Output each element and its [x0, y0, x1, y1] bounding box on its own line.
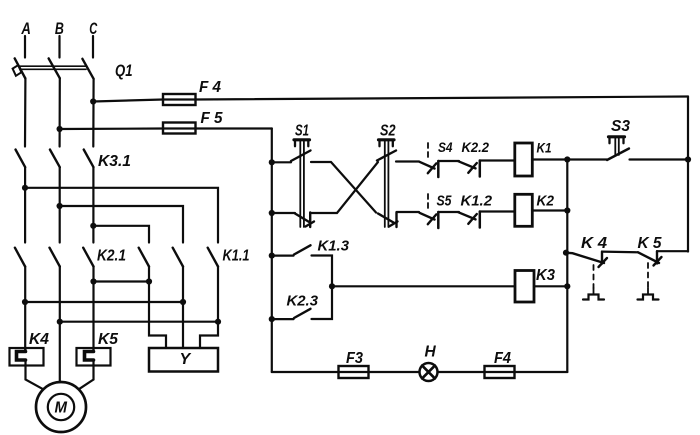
wire to K3 coil	[332, 285, 515, 287]
wire phase C middle	[92, 167, 94, 242]
wire phase B middle	[59, 167, 61, 242]
wire F5 row	[60, 127, 272, 130]
wire K1.1 pole1 down	[149, 267, 166, 349]
svg-text:S3: S3	[611, 118, 630, 135]
fuse F5	[163, 123, 196, 134]
wire K2.2 to K1 coil	[480, 159, 515, 161]
pushbutton S2	[377, 140, 398, 227]
wire row2 from bus	[272, 212, 295, 214]
node bridge3 left	[57, 319, 63, 325]
wire K5 to right bus	[657, 250, 688, 252]
node S3 left	[564, 156, 570, 162]
wire bottom row	[272, 371, 568, 373]
svg-text:K2.3: K2.3	[287, 293, 319, 310]
node thermal row left	[563, 250, 569, 256]
contact K3.1 pole A	[16, 150, 26, 168]
fuse F4	[163, 94, 196, 105]
wire S4 to K2.2	[438, 160, 459, 162]
wire K2.1 pole1 down	[24, 267, 26, 352]
node C-F4 tap	[90, 98, 96, 104]
svg-text:K3: K3	[536, 267, 555, 284]
svg-text:H: H	[425, 344, 437, 361]
wire S2bottom to S5	[397, 211, 420, 213]
switch Q1	[13, 58, 94, 78]
svg-text:S5: S5	[437, 194, 453, 210]
heater K5	[77, 348, 111, 366]
svg-text:F4: F4	[494, 350, 511, 367]
wire K1 coil to mid bus	[532, 158, 567, 160]
wire bridge C-K1.1pole1	[94, 280, 150, 282]
thermal contact K5	[638, 251, 662, 299]
node bus row2	[269, 210, 275, 216]
node K3 row mid bus	[564, 283, 570, 289]
svg-text:K3.1: K3.1	[98, 153, 131, 170]
node A feeder	[22, 185, 28, 191]
wire K5 to motor	[79, 366, 94, 390]
svg-text:K2.1: K2.1	[97, 248, 126, 265]
svg-text:Y: Y	[180, 351, 192, 368]
motor M	[36, 382, 86, 432]
svg-text:M: M	[55, 400, 68, 417]
svg-text:S2: S2	[380, 123, 396, 140]
node bus K2.3	[269, 316, 275, 322]
contact K1.2	[459, 212, 480, 228]
wire S1bottom to S2top crossing	[310, 162, 378, 213]
svg-text:F3: F3	[346, 350, 363, 367]
wire K4 to motor	[26, 366, 44, 390]
thermal contact K4	[565, 252, 607, 300]
node bus row1	[269, 159, 275, 165]
star box Y	[149, 348, 218, 372]
svg-text:S4: S4	[438, 139, 453, 155]
svg-text:Q1: Q1	[115, 61, 133, 80]
coil K1	[515, 143, 533, 176]
contact K3.1 pole B	[50, 150, 60, 168]
wire feeder B to K1.1 pole2	[60, 206, 183, 243]
svg-text:K1: K1	[537, 140, 552, 156]
wire phase C upper	[92, 79, 94, 147]
fuse F3	[339, 366, 369, 378]
node C feeder	[90, 223, 96, 229]
node bridge1 right	[146, 278, 152, 284]
svg-text:F 5: F 5	[201, 110, 224, 127]
node K2 row mid bus	[564, 207, 570, 213]
contact S4	[420, 143, 439, 177]
pushbutton S3	[607, 137, 629, 160]
svg-text:K1.1: K1.1	[223, 248, 250, 265]
wire S5 to K1.2	[438, 211, 459, 213]
wire K2.1 pole3 down	[92, 267, 94, 352]
svg-text:K 5: K 5	[638, 235, 662, 252]
svg-text:K5: K5	[98, 331, 119, 348]
wire right bus vertical	[687, 97, 689, 252]
contact K2.3	[272, 286, 332, 319]
contact K2.1 pole3	[83, 248, 93, 267]
coil K3	[515, 271, 534, 303]
node bridge1 left	[90, 278, 96, 284]
wire F4 row	[93, 97, 688, 102]
wire row1 from bus	[272, 161, 291, 163]
coil K2	[515, 194, 533, 226]
contact K2.2	[459, 161, 480, 177]
contact K1.1 pole2	[173, 248, 183, 267]
wire bridge A-K1.1pole2	[25, 301, 183, 303]
wire phase C lead-in	[92, 36, 94, 58]
node bridge3 right	[215, 319, 221, 325]
wire K1 row to S3	[567, 158, 607, 160]
wire mid bus vertical	[566, 160, 568, 373]
node B feeder	[57, 203, 63, 209]
svg-text:F 4: F 4	[199, 79, 221, 96]
contact K2.1 pole2	[50, 248, 60, 267]
svg-text:K 4: K 4	[581, 235, 607, 252]
svg-text:S1: S1	[295, 123, 309, 140]
svg-text:K2: K2	[537, 193, 555, 210]
svg-text:K1.3: K1.3	[318, 238, 350, 255]
node bridge2 right	[180, 299, 186, 305]
wire S1top to S2bottom crossing	[311, 162, 376, 213]
wire phase B upper	[58, 78, 60, 146]
wire S3 to right bus	[630, 158, 689, 160]
wire K1.1 pole3 down	[200, 267, 218, 349]
wire K3 coil to mid bus	[534, 285, 567, 287]
wire phase A lead-in	[24, 36, 26, 58]
wire phase B lead-in	[58, 36, 60, 58]
contact K1.3	[272, 245, 332, 286]
svg-text:A: A	[21, 19, 31, 38]
pushbutton S1	[291, 140, 314, 227]
wire control left bus	[271, 129, 273, 373]
wire K4 to K5	[602, 251, 638, 254]
heater K4	[10, 348, 44, 366]
svg-text:K4: K4	[29, 331, 49, 348]
wire K1.1 pole2 down	[182, 267, 184, 349]
svg-text:K2.2: K2.2	[462, 139, 490, 155]
wire S2top to S4	[396, 160, 419, 162]
contact K3.1 pole C	[84, 150, 94, 168]
wire phase A middle	[24, 167, 26, 242]
contact S5	[420, 194, 439, 228]
svg-text:K1.2: K1.2	[461, 194, 493, 210]
node B-F5 tap	[57, 126, 63, 132]
contact K1.1 pole1	[139, 248, 149, 267]
contact K2.1 pole1	[15, 248, 25, 267]
wire K2.1 pole2 down	[59, 267, 61, 383]
node K1.3 K2.3 join	[329, 283, 335, 289]
wire phase A upper	[24, 79, 27, 147]
contact K1.1 pole3	[208, 248, 218, 267]
wire bridge B-K1.1pole3	[60, 321, 218, 323]
node bridge2 left	[22, 299, 28, 305]
wire K1.2 to K2 coil	[480, 210, 515, 212]
node bus K1.3	[269, 253, 275, 259]
wire feeder A to K1.1 pole3	[25, 188, 218, 243]
node S3 right	[685, 156, 691, 162]
lamp H	[420, 363, 438, 381]
fuse F4 bottom	[485, 366, 515, 378]
wire K2 coil to mid bus	[532, 209, 567, 211]
wire feeder C to K1.1 pole1	[93, 226, 149, 243]
